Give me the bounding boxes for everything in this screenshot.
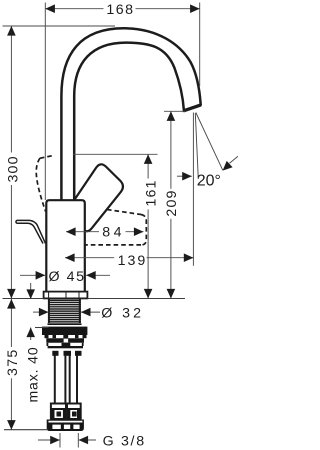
svg-text:max. 40: max. 40	[24, 346, 40, 402]
svg-text:168: 168	[106, 2, 134, 18]
svg-text:Ø 45: Ø 45	[49, 269, 86, 285]
svg-text:375: 375	[5, 348, 21, 376]
svg-text:Ø 32: Ø 32	[101, 306, 144, 322]
svg-text:161: 161	[144, 179, 160, 206]
svg-text:20°: 20°	[197, 173, 221, 190]
svg-text:300: 300	[5, 155, 21, 182]
svg-text:G 3/8: G 3/8	[103, 434, 146, 450]
svg-text:84: 84	[102, 224, 125, 240]
svg-text:139: 139	[118, 253, 148, 269]
svg-text:209: 209	[164, 189, 180, 216]
